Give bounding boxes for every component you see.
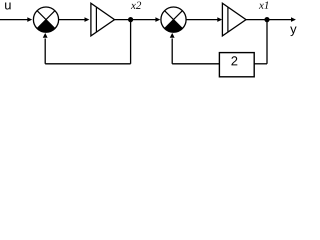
wire feedback loop 2: from vertical to gain box right side (254, 63, 267, 65)
summing junction 2 (circle with X, bottom quadrant filled) (161, 7, 186, 32)
wire summing junction 2 to amplifier 2 (186, 19, 218, 21)
svg-text:y: y (290, 21, 297, 36)
wire feedback loop 2: up into summing junction 2 (171, 39, 173, 64)
svg-text:x2: x2 (130, 0, 142, 12)
svg-text:2: 2 (231, 53, 238, 68)
node x1 (dot) (264, 17, 269, 22)
wire feedback loop 1: down from node x2 (130, 20, 132, 64)
wire amplifier 1 to summing junction 2 (115, 19, 157, 21)
wire feedback loop 1: up into summing junction 1 (44, 39, 46, 64)
amplifier/integrator triangle 2 (222, 3, 246, 36)
summing junction 1 (circle with X, bottom quadrant filled) (33, 7, 58, 32)
node x2 (dot) (128, 17, 133, 22)
wire feedback loop 1: bottom horizontal (45, 63, 130, 65)
gain block K=2 (box) (219, 53, 254, 77)
wire amplifier 2 to output y (246, 19, 295, 21)
wire u input to summing junction 1 (0, 19, 29, 21)
svg-text:x1: x1 (258, 0, 269, 12)
wire feedback loop 2: gain box left side to vertical (172, 63, 219, 65)
wire summing junction 1 to amplifier 1 (59, 19, 86, 21)
amplifier/integrator triangle 1 (91, 3, 115, 36)
wire feedback loop 2: down from node x1 (266, 20, 268, 64)
svg-text:u: u (4, 0, 11, 12)
